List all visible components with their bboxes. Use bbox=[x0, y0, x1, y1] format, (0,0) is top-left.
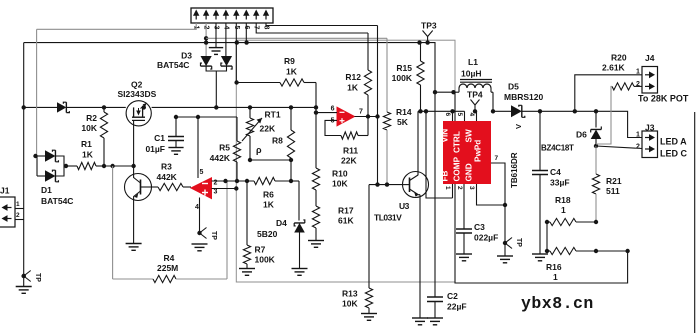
junction RT1 bottom bbox=[248, 158, 252, 162]
svg-text:R9: R9 bbox=[284, 56, 295, 66]
label R15 bbox=[396, 63, 412, 73]
svg-text:FB: FB bbox=[441, 170, 450, 181]
resistor R1 bbox=[66, 162, 104, 169]
svg-text:442K: 442K bbox=[157, 172, 178, 182]
label R10 bbox=[332, 169, 348, 179]
wire U2 pin5 loop bbox=[325, 120, 341, 135]
wire pin5 down bbox=[235, 23, 237, 83]
label D3 bbox=[181, 51, 192, 61]
svg-text:V: V bbox=[514, 124, 523, 129]
junction C1/wire bbox=[174, 115, 178, 119]
label IC pin7 bbox=[495, 155, 499, 162]
wire FB loop bbox=[426, 111, 453, 198]
label R14 value bbox=[397, 117, 409, 127]
label R16 value bbox=[553, 272, 558, 282]
svg-text:R17: R17 bbox=[338, 206, 354, 216]
label R3 bbox=[161, 162, 172, 172]
svg-text:2: 2 bbox=[636, 81, 640, 88]
junction L1 right bbox=[491, 109, 495, 113]
label R9 value bbox=[286, 67, 298, 77]
label RT1 bbox=[265, 110, 281, 120]
wire left rail vertical bbox=[23, 43, 25, 286]
label D5 part bbox=[504, 92, 543, 102]
svg-text:U3: U3 bbox=[399, 201, 410, 211]
label C4 value bbox=[550, 178, 570, 188]
capacitor C1 bbox=[168, 137, 184, 141]
wire pin2 down to D3 bbox=[205, 23, 207, 56]
label TP1 bbox=[34, 273, 41, 282]
label IC pin4 bbox=[468, 113, 475, 117]
label R17 bbox=[338, 206, 354, 216]
svg-text:01µF: 01µF bbox=[145, 144, 165, 154]
wire R10 top bbox=[315, 83, 317, 169]
svg-text:1: 1 bbox=[553, 272, 558, 282]
resistor R6 bbox=[254, 177, 299, 184]
junction L1 feed left bbox=[433, 90, 437, 94]
junction pin2/y38 bbox=[204, 36, 208, 40]
op-amp U2 comparator bbox=[337, 107, 355, 126]
label R10 value bbox=[332, 179, 348, 189]
svg-text:CTRL: CTRL bbox=[453, 131, 462, 153]
wire pin3 stub bbox=[215, 23, 217, 47]
label TP3 bbox=[421, 21, 437, 31]
wire output rail bbox=[522, 111, 642, 137]
svg-text:2: 2 bbox=[636, 144, 640, 151]
capacitor C2 bbox=[427, 297, 443, 302]
svg-text:33µF: 33µF bbox=[550, 178, 570, 188]
label IC GND bbox=[465, 163, 474, 181]
svg-text:5K: 5K bbox=[397, 117, 409, 127]
svg-text:PwPd: PwPd bbox=[474, 140, 483, 162]
junction RT1 top bbox=[248, 105, 252, 109]
label IC CTRL bbox=[453, 131, 462, 153]
svg-text:7: 7 bbox=[495, 155, 499, 162]
svg-text:22K: 22K bbox=[341, 156, 357, 166]
label C2 bbox=[447, 291, 458, 301]
junction base/rail8 bbox=[375, 182, 379, 186]
label R5 value bbox=[210, 153, 231, 163]
junction +input/box edge bbox=[234, 186, 238, 190]
ground IC bbox=[497, 256, 513, 263]
label R3 value bbox=[157, 172, 178, 182]
label R6 bbox=[263, 190, 274, 200]
wire D6 bottom bbox=[595, 139, 597, 146]
junction D6 top bbox=[594, 109, 598, 113]
svg-text:1: 1 bbox=[561, 205, 566, 215]
label R12 value bbox=[347, 83, 359, 93]
label R16 bbox=[546, 262, 562, 272]
label D6 bbox=[576, 130, 587, 140]
svg-text:ρ: ρ bbox=[256, 145, 262, 155]
label C2 value bbox=[447, 302, 467, 312]
label R20 bbox=[611, 53, 627, 63]
label C3 value bbox=[474, 233, 498, 243]
junction R9 left bbox=[234, 80, 238, 84]
wire Q2 gate down bbox=[133, 121, 135, 166]
junction FB loop bbox=[625, 249, 629, 253]
label R11 value bbox=[341, 156, 357, 166]
wire D4 top bbox=[291, 181, 299, 221]
svg-text:225M: 225M bbox=[157, 263, 178, 273]
connector J2 pin numbers 1-8 bbox=[193, 26, 270, 30]
label LED A bbox=[660, 137, 687, 147]
junction D3/main wire bbox=[214, 105, 218, 109]
junction R15 bottom bbox=[418, 109, 422, 113]
junction D6 bottom bbox=[594, 144, 598, 148]
resistor R2 bbox=[100, 107, 107, 166]
svg-text:SW: SW bbox=[465, 129, 474, 142]
wire VIN to L1 bbox=[435, 110, 465, 112]
label U2 pin6 bbox=[331, 106, 335, 113]
wire U3 collector bbox=[417, 111, 419, 175]
junction R7 top bbox=[245, 179, 249, 183]
label J3 bbox=[645, 123, 655, 133]
ground U1 pin4 bbox=[192, 244, 208, 251]
svg-text:R18: R18 bbox=[555, 195, 571, 205]
label R13 value bbox=[342, 299, 358, 309]
resistor R17 bbox=[312, 190, 319, 240]
ground Q1 emitter bbox=[126, 244, 142, 251]
svg-text:5B20: 5B20 bbox=[257, 229, 278, 239]
label SI2343DS bbox=[118, 89, 157, 99]
label J1 bbox=[0, 186, 10, 196]
diode D5 bbox=[511, 105, 525, 117]
wire U3 emitter bbox=[418, 195, 420, 318]
wire D4 bottom bbox=[299, 233, 301, 269]
svg-text:C3: C3 bbox=[474, 222, 485, 232]
label IC pin3 bbox=[468, 186, 475, 190]
svg-text:J4: J4 bbox=[645, 53, 655, 63]
svg-text:TL031V: TL031V bbox=[374, 213, 402, 223]
svg-text:5: 5 bbox=[200, 169, 204, 176]
svg-text:61K: 61K bbox=[338, 216, 354, 226]
label D6 part bbox=[541, 144, 574, 153]
connector J1 bbox=[0, 197, 15, 227]
label R6 value bbox=[263, 200, 275, 210]
wire J3 pin2 bbox=[596, 146, 642, 149]
watermark ybx8.cn bbox=[521, 294, 594, 313]
junction opamp U1 pin5 supply bbox=[196, 115, 200, 119]
label R12 bbox=[345, 72, 361, 82]
svg-text:100K: 100K bbox=[255, 255, 276, 265]
svg-text:1: 1 bbox=[444, 186, 451, 190]
svg-text:MBRS120: MBRS120 bbox=[504, 92, 543, 102]
ground C4 bbox=[532, 254, 548, 261]
resistor R4 bbox=[113, 275, 227, 282]
wire C1 top bbox=[175, 117, 177, 137]
junction R15 top bbox=[417, 40, 421, 44]
label U1 pin3 bbox=[214, 189, 218, 196]
svg-text:TB616DR: TB616DR bbox=[510, 152, 519, 188]
svg-text:ybx8.cn: ybx8.cn bbox=[521, 294, 594, 313]
thermistor RT1 bbox=[242, 107, 262, 160]
test point TP2 bbox=[197, 228, 206, 239]
wire L1 feed bbox=[435, 91, 455, 93]
junction pin2/main rail bbox=[204, 40, 208, 44]
svg-text:10K: 10K bbox=[81, 123, 97, 133]
label J1 pin1 bbox=[16, 201, 20, 208]
svg-text:D1: D1 bbox=[41, 185, 52, 195]
label U1 pin4 bbox=[195, 204, 199, 211]
label J1 pin2 bbox=[16, 212, 20, 219]
svg-text:D5: D5 bbox=[508, 82, 519, 92]
junction R18 right bbox=[594, 220, 598, 224]
label D5 bbox=[508, 82, 519, 92]
ground C3 bbox=[456, 254, 472, 261]
label U3 part bbox=[374, 213, 402, 223]
wire FB right loop bbox=[455, 92, 628, 283]
junction gate node bbox=[131, 164, 135, 168]
IC pin6 stub bbox=[452, 111, 454, 121]
transistor Q1 (PNP pass driver) bbox=[125, 174, 152, 201]
svg-text:L1: L1 bbox=[468, 57, 478, 67]
label R11 bbox=[343, 146, 358, 156]
svg-text:R1: R1 bbox=[81, 139, 92, 149]
svg-text:6: 6 bbox=[444, 113, 451, 117]
svg-text:3: 3 bbox=[468, 186, 475, 190]
svg-text:To 28K POT: To 28K POT bbox=[638, 94, 689, 104]
svg-text:442K: 442K bbox=[210, 153, 231, 163]
label TP4 bbox=[467, 90, 483, 100]
junction D1 out bbox=[64, 164, 68, 168]
wire sense supply bbox=[176, 116, 237, 118]
label IC PwPd bbox=[474, 140, 483, 162]
svg-text:2: 2 bbox=[456, 186, 463, 190]
svg-text:1K: 1K bbox=[82, 150, 94, 160]
label TP2 bbox=[210, 231, 217, 240]
wire U1 pin5 supply bbox=[197, 117, 199, 178]
label C1 value bbox=[145, 144, 165, 154]
svg-text:COMP: COMP bbox=[453, 156, 462, 181]
svg-text:R20: R20 bbox=[611, 53, 627, 63]
wire J1 pin1 stub bbox=[15, 208, 24, 210]
wire pin4 down to D3 right bbox=[225, 23, 227, 56]
junction R8 bottom link bbox=[289, 179, 293, 183]
resistor R20 bbox=[596, 83, 642, 144]
svg-text:8: 8 bbox=[263, 26, 270, 30]
test point TP4 bbox=[471, 100, 480, 112]
label R7 value bbox=[255, 255, 276, 265]
label R18 bbox=[555, 195, 571, 205]
svg-text:R15: R15 bbox=[396, 63, 412, 73]
svg-text:10K: 10K bbox=[342, 299, 358, 309]
label J4 pin1 bbox=[636, 69, 640, 76]
wire J4 pin1 bbox=[575, 75, 642, 112]
resistor R18 bbox=[547, 218, 596, 225]
wire C4 bottom bbox=[539, 175, 541, 254]
wire base node bbox=[104, 165, 134, 167]
label R9 bbox=[284, 56, 295, 66]
IC pin4 stub bbox=[476, 111, 478, 121]
junction R4 branch bbox=[110, 164, 114, 168]
label R13 bbox=[342, 289, 358, 299]
resistor R21 bbox=[592, 146, 599, 222]
junction VIN stub bbox=[450, 109, 454, 113]
svg-text:Q2: Q2 bbox=[131, 80, 143, 90]
junction R16 left bbox=[545, 249, 549, 253]
svg-text:2.61K: 2.61K bbox=[602, 63, 626, 73]
label U1 pin5 bbox=[200, 169, 204, 176]
wire U3 base node bbox=[369, 185, 403, 288]
svg-text:R3: R3 bbox=[161, 162, 172, 172]
label R18 value bbox=[561, 205, 566, 215]
wire collector node bbox=[418, 110, 435, 112]
svg-text:4: 4 bbox=[195, 204, 199, 211]
wire R4 branch vertical bbox=[112, 166, 114, 279]
section outline box (middle analog block) bbox=[236, 40, 455, 282]
diode D3 right half bbox=[221, 56, 232, 69]
label C3 bbox=[474, 222, 485, 232]
label R2 bbox=[86, 113, 97, 123]
label R4 value bbox=[157, 263, 178, 273]
label D4 part bbox=[257, 229, 278, 239]
svg-text:BAT54C: BAT54C bbox=[157, 60, 189, 70]
label D1 bbox=[41, 185, 52, 195]
label IC VIN bbox=[441, 129, 450, 143]
label R20 value bbox=[602, 63, 626, 73]
svg-text:5: 5 bbox=[456, 113, 463, 117]
ground R17 bbox=[308, 241, 324, 248]
test point TP5 bbox=[503, 238, 512, 249]
resistor R10 bbox=[312, 168, 319, 190]
label D1 part bbox=[41, 196, 73, 206]
capacitor C3 bbox=[456, 229, 472, 233]
capacitor C4 bbox=[532, 171, 548, 175]
label V bbox=[514, 124, 523, 129]
resistor R15 bbox=[417, 43, 424, 112]
svg-text:100K: 100K bbox=[392, 73, 413, 83]
svg-text:5: 5 bbox=[331, 118, 335, 125]
svg-text:1K: 1K bbox=[263, 200, 275, 210]
label U1 pin2 bbox=[214, 180, 218, 187]
label TP5 bbox=[515, 238, 522, 247]
svg-text:022µF: 022µF bbox=[474, 233, 498, 243]
junction J4 wire bbox=[573, 109, 577, 113]
label R7 bbox=[255, 245, 266, 255]
resistor R3 bbox=[152, 183, 192, 190]
label L1 bbox=[468, 57, 478, 67]
test point TP1 bbox=[22, 271, 31, 282]
svg-text:C4: C4 bbox=[550, 167, 561, 177]
label IC FB bbox=[441, 170, 450, 181]
svg-text:1K: 1K bbox=[286, 67, 298, 77]
svg-text:C2: C2 bbox=[447, 291, 458, 301]
junction pin6/main rail bbox=[244, 40, 248, 44]
wire pin7 to R12 rail bbox=[256, 23, 368, 33]
label IC SW bbox=[465, 129, 474, 142]
label U2 pin7 bbox=[359, 109, 363, 116]
junction L1 feed right bbox=[451, 90, 455, 94]
resistor R12 bbox=[364, 33, 371, 117]
wire PwPd bbox=[491, 163, 505, 205]
wire node rail vertical bbox=[377, 26, 379, 185]
label R15 value bbox=[392, 73, 413, 83]
svg-text:LED C: LED C bbox=[660, 149, 688, 159]
wire VIN down to C2 bbox=[434, 111, 436, 297]
junction R2 bottom bbox=[102, 164, 106, 168]
wire U1 inverting input bbox=[212, 180, 255, 182]
wire D1 anode bracket bbox=[35, 29, 45, 176]
ground C2 bbox=[427, 318, 443, 325]
wire Q1 emitter bbox=[133, 196, 135, 243]
transistor Q2 SI2343DS (P-MOSFET) bbox=[126, 101, 151, 126]
label IC pin2 bbox=[456, 186, 463, 190]
svg-text:1K: 1K bbox=[347, 83, 359, 93]
junction R8 link bbox=[289, 158, 293, 162]
svg-text:R2: R2 bbox=[86, 113, 97, 123]
svg-text:RT1: RT1 bbox=[265, 110, 281, 120]
wire C2 bottom bbox=[434, 302, 436, 318]
wire J1 pin2 stub bbox=[15, 219, 24, 221]
connector J3 bbox=[642, 131, 658, 158]
label L1 value bbox=[461, 69, 482, 79]
junction output/rail bbox=[375, 114, 379, 118]
label R21 bbox=[606, 176, 622, 186]
svg-text:TP: TP bbox=[210, 231, 217, 240]
wire COMP to C3 bbox=[463, 184, 465, 229]
svg-text:SI2343DS: SI2343DS bbox=[118, 89, 157, 99]
junction chain/main bbox=[314, 105, 318, 109]
label J3 pin2 bbox=[636, 144, 640, 151]
junction Q2 drain bbox=[142, 105, 146, 109]
wire pin2 to R14 rail bbox=[206, 37, 387, 39]
diode D1 upper half bbox=[45, 150, 58, 162]
resistor R14 bbox=[383, 38, 390, 184]
op-amp U1 comparator bbox=[191, 178, 212, 199]
svg-text:R14: R14 bbox=[396, 107, 412, 117]
connector J2 (8-pin header) bbox=[191, 8, 273, 23]
svg-text:BZ4C18T: BZ4C18T bbox=[541, 144, 574, 153]
label R5 bbox=[219, 143, 230, 153]
label IC pin1 bbox=[444, 186, 451, 190]
junction D1 anode bbox=[33, 154, 37, 158]
wire pin6 down bbox=[245, 23, 247, 43]
junction base/R14 bbox=[385, 182, 389, 186]
svg-text:22K: 22K bbox=[260, 124, 276, 134]
diode D3 left half bbox=[201, 56, 212, 69]
junction pin5/main rail bbox=[235, 40, 239, 44]
wire U2 output bbox=[355, 116, 378, 118]
transistor U3 TL031V bbox=[403, 172, 429, 198]
svg-text:10µH: 10µH bbox=[461, 69, 482, 79]
svg-text:2: 2 bbox=[16, 212, 20, 219]
wire RT1-R8 link bbox=[250, 159, 291, 161]
label J4 bbox=[645, 53, 655, 63]
junction R2 top bbox=[102, 105, 106, 109]
label C1 bbox=[154, 133, 165, 143]
wire C3 bottom bbox=[463, 233, 465, 254]
svg-text:VIN: VIN bbox=[441, 129, 450, 143]
wire pin1 to left rail bbox=[37, 23, 197, 29]
wire battery rail bbox=[24, 43, 435, 112]
junction GND/PwPd bbox=[503, 203, 507, 207]
svg-text:D4: D4 bbox=[276, 218, 287, 228]
wire pin8 to node rail bbox=[266, 23, 378, 26]
svg-text:10K: 10K bbox=[332, 179, 348, 189]
label U2 part TB616DR bbox=[510, 152, 519, 188]
connector J4 bbox=[642, 67, 658, 94]
resistor R5 bbox=[233, 117, 240, 181]
ground TP1 bbox=[16, 287, 32, 294]
junction TP3 bbox=[425, 40, 429, 44]
label Q2 bbox=[131, 80, 143, 90]
wire D3 common cathode bbox=[206, 66, 226, 107]
wire D6 top bbox=[595, 111, 597, 127]
svg-text:R13: R13 bbox=[342, 289, 358, 299]
label R21 value bbox=[606, 186, 620, 196]
svg-text:R8: R8 bbox=[272, 136, 283, 146]
resistor R7 bbox=[243, 181, 250, 268]
